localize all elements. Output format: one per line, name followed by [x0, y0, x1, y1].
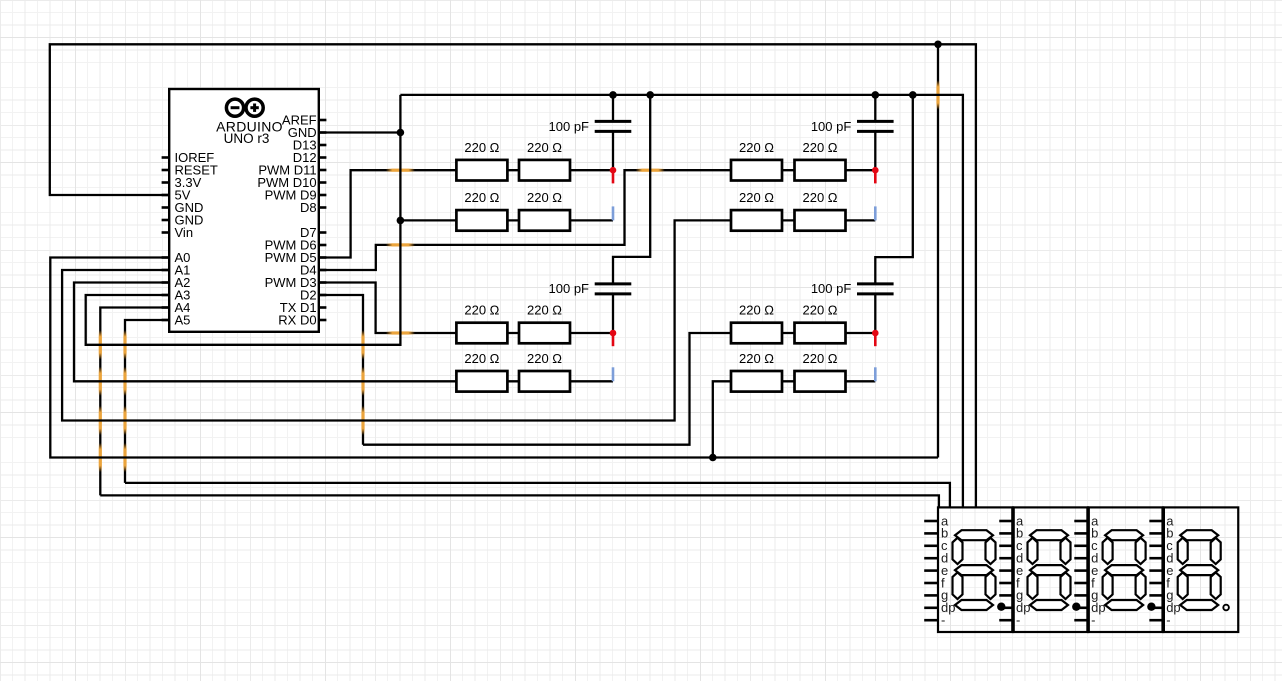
svg-text:100 pF: 100 pF — [811, 281, 852, 296]
wire GND bus to display — [400, 95, 963, 508]
digit segment c (DS4) — [1211, 572, 1221, 599]
capacitor C4 bottom plate — [857, 292, 894, 295]
pin stub e (DS1) — [924, 569, 938, 572]
digit segment g (DS2) — [1030, 565, 1068, 575]
svg-text:100 pF: 100 pF — [811, 119, 852, 134]
pin stub 5V (left) — [162, 194, 170, 197]
svg-text:220 Ω: 220 Ω — [802, 351, 837, 366]
pin stub e (DS2) — [999, 569, 1013, 572]
pin stub D10 — [319, 181, 327, 184]
pin stub D12 — [319, 156, 327, 159]
pin stub dp (DS1) — [924, 606, 938, 609]
wire crossing hop (A4 leg at y=457.5) — [99, 443, 102, 472]
wire D4 to digit-group2 row1 (net D4) — [319, 170, 876, 270]
decimal point (DS1) — [997, 603, 1005, 611]
wire crossing hop (A5 leg at y=457.5) — [123, 443, 126, 472]
wire D3 to digit-group3 row1 (net D3) — [319, 283, 613, 334]
pin stub a (DS2) — [999, 520, 1013, 523]
wire A5 down-leg (net A5) — [125, 320, 169, 483]
red junction dot group3 — [610, 330, 617, 337]
svg-text:100 pF: 100 pF — [549, 119, 590, 134]
junction top bus / A0 riser — [934, 41, 942, 49]
svg-text:RX D0: RX D0 — [278, 313, 316, 328]
wire A4 bottom run to display — [100, 495, 939, 507]
display divider 1 — [1011, 507, 1015, 632]
pin stub f (DS1) — [924, 582, 938, 585]
pin stub d (DS3) — [1074, 557, 1088, 560]
7-segment display DS4 body — [1163, 507, 1238, 632]
wire A1 to digit-group2 row2 (net A1) — [62, 220, 875, 420]
pin stub d (DS4) — [1149, 557, 1163, 560]
junction GND bus / C2 feed — [646, 91, 654, 99]
pin stub - (DS4) — [1149, 619, 1163, 622]
svg-text:-: - — [1166, 613, 1170, 628]
svg-text:220 Ω: 220 Ω — [527, 190, 562, 205]
digit segment e (DS2) — [1028, 572, 1038, 599]
digit segment f (DS4) — [1178, 538, 1188, 564]
pin stub c (DS1) — [924, 544, 938, 547]
resistor R10 220 ohm — [519, 323, 570, 344]
pin stub dp (DS3) — [1074, 606, 1088, 609]
pin stub D1 — [319, 306, 327, 309]
red pin stub group1 — [612, 170, 615, 183]
resistor R14 220 ohm — [795, 323, 846, 344]
digit segment b (DS4) — [1211, 538, 1221, 564]
pin stub c (DS2) — [999, 544, 1013, 547]
capacitor C3 top lead — [874, 95, 876, 122]
svg-text:100 pF: 100 pF — [549, 281, 590, 296]
resistor R1 220 ohm — [456, 160, 507, 181]
svg-text:-: - — [1091, 613, 1095, 628]
junction GND bus / C1 — [609, 91, 617, 99]
pin stub D7 — [319, 231, 327, 234]
blue pin stub group2 — [874, 206, 877, 220]
wire capacitor C2 feed from GND bus — [613, 95, 650, 284]
digit segment b (DS1) — [986, 538, 996, 564]
wire A2 to digit-group3 row2 (net A2) — [74, 283, 613, 382]
pin stub D2 — [319, 294, 327, 297]
svg-text:220 Ω: 220 Ω — [739, 140, 774, 155]
svg-text:220 Ω: 220 Ω — [802, 140, 837, 155]
capacitor C2 bottom plate — [595, 292, 632, 295]
pin stub e (DS3) — [1074, 569, 1088, 572]
decimal point (DS3) — [1147, 603, 1155, 611]
svg-text:220 Ω: 220 Ω — [802, 190, 837, 205]
pin stub D0 — [319, 319, 327, 322]
red junction dot group2 — [872, 167, 879, 174]
digit segment e (DS3) — [1103, 572, 1113, 599]
wire GND pin to riser — [319, 131, 401, 133]
wire crossing hop (A4 leg at y=344.8) — [99, 330, 102, 359]
Arduino UNO U1 body — [169, 89, 319, 332]
pin stub b (DS3) — [1074, 532, 1088, 535]
pin stub D11 — [319, 169, 327, 172]
wire crossing hop (A4 leg at y=381.3) — [99, 367, 102, 396]
svg-text:-: - — [941, 613, 945, 628]
resistor R16 220 ohm — [795, 371, 846, 392]
svg-text:220 Ω: 220 Ω — [802, 303, 837, 318]
svg-text:220 Ω: 220 Ω — [464, 351, 499, 366]
wire crossing hop (D4 net over cap feed) — [636, 169, 665, 172]
wire 5V to top bus to display — [50, 44, 976, 507]
digit segment b (DS3) — [1136, 538, 1146, 564]
pin stub GND (left) — [162, 219, 170, 222]
resistor R9 220 ohm — [456, 323, 507, 344]
resistor R3 220 ohm — [456, 210, 507, 231]
svg-text:-: - — [1016, 613, 1020, 628]
pin stub a (DS4) — [1149, 520, 1163, 523]
pin stub GND — [319, 131, 327, 134]
pin stub A5 (left) — [162, 319, 170, 322]
pin stub f (DS3) — [1074, 582, 1088, 585]
digit segment g (DS3) — [1105, 565, 1143, 575]
pin stub b (DS4) — [1149, 532, 1163, 535]
pin stub g (DS4) — [1149, 594, 1163, 597]
wire crossing hop (D5 net over GND riser) — [386, 169, 415, 172]
wire crossing hop (D2 leg at y=420.5) — [361, 406, 364, 435]
wire A5 bottom run to display — [125, 483, 950, 508]
pin stub A2 (left) — [162, 281, 170, 284]
pin stub A0 (left) — [162, 256, 170, 259]
wire crossing hop (D2 leg at y=381.3) — [361, 367, 364, 396]
wire crossing hop (D2 leg at y=344.8) — [361, 330, 364, 359]
wire capacitor C4 feed from GND bus — [875, 95, 913, 284]
pin stub IOREF (left) — [162, 156, 170, 159]
pin stub c (DS4) — [1149, 544, 1163, 547]
digit segment a (DS4) — [1180, 530, 1218, 540]
digit segment a (DS3) — [1105, 530, 1143, 540]
pin stub g (DS3) — [1074, 594, 1088, 597]
pin stub D5 — [319, 256, 327, 259]
junction GND bus / C3 — [872, 91, 880, 99]
pin stub f (DS2) — [999, 582, 1013, 585]
decimal point (DS4) — [1223, 605, 1229, 611]
digit segment b (DS2) — [1061, 538, 1071, 564]
digit segment e (DS4) — [1178, 572, 1188, 599]
resistor R11 220 ohm — [456, 371, 507, 392]
blue pin stub group1 — [612, 206, 615, 220]
svg-text:220 Ω: 220 Ω — [739, 190, 774, 205]
decimal point (DS2) — [1072, 603, 1080, 611]
blue pin stub group4 — [874, 367, 877, 381]
wire crossing hop (A4 leg at y=420.5) — [99, 406, 102, 435]
pin stub D3 — [319, 281, 327, 284]
svg-text:UNO r3: UNO r3 — [224, 131, 270, 146]
pin stub a (DS3) — [1074, 520, 1088, 523]
red pin stub group2 — [874, 170, 877, 183]
capacitor C1 top plate — [595, 120, 632, 123]
digit segment d (DS1) — [955, 600, 993, 610]
wire crossing hop (A5 leg at y=420.5) — [123, 406, 126, 435]
resistor R13 220 ohm — [731, 323, 782, 344]
wire A4 down-leg (net A4) — [100, 308, 169, 496]
pin stub D8 — [319, 206, 327, 209]
7-segment display DS3 body — [1088, 507, 1163, 632]
svg-text:220 Ω: 220 Ω — [527, 303, 562, 318]
capacitor C2 bottom lead — [612, 294, 614, 333]
svg-text:220 Ω: 220 Ω — [464, 303, 499, 318]
capacitor C2 top plate — [595, 282, 632, 285]
digit segment a (DS1) — [955, 530, 993, 540]
junction riser / group1 row2 — [397, 217, 405, 225]
resistor R12 220 ohm — [519, 371, 570, 392]
digit segment g (DS1) — [955, 565, 993, 575]
pin stub A4 (left) — [162, 306, 170, 309]
resistor R4 220 ohm — [519, 210, 570, 231]
pin stub A3 (left) — [162, 294, 170, 297]
pin stub d (DS2) — [999, 557, 1013, 560]
pin stub D6 — [319, 244, 327, 247]
digit segment c (DS1) — [986, 572, 996, 599]
digit segment g (DS4) — [1180, 565, 1218, 575]
digit segment d (DS3) — [1105, 600, 1143, 610]
pin stub D9 — [319, 194, 327, 197]
display divider 3 — [1161, 507, 1165, 632]
digit segment c (DS2) — [1061, 572, 1071, 599]
pin stub - (DS1) — [924, 619, 938, 622]
resistor R5 220 ohm — [731, 160, 782, 181]
junction GND pin / riser — [397, 129, 405, 137]
pin stub D13 — [319, 144, 327, 147]
pin stub RESET (left) — [162, 169, 170, 172]
capacitor C1 bottom plate — [595, 130, 632, 133]
wire A3/GND riser (net GND) — [86, 95, 401, 345]
red junction dot group4 — [872, 330, 879, 337]
digit segment c (DS3) — [1136, 572, 1146, 599]
capacitor C1 top lead — [612, 95, 614, 122]
svg-text:A5: A5 — [175, 313, 191, 328]
wire D2 down-leg (net D2) — [319, 295, 363, 445]
pin stub AREF — [319, 119, 327, 122]
digit segment d (DS2) — [1030, 600, 1068, 610]
wire D5 to digit-group1 row1 (net D5) — [319, 170, 613, 257]
svg-text:Vin: Vin — [175, 225, 194, 240]
junction A0 run / group4 row2 — [709, 454, 717, 462]
pin stub D4 — [319, 269, 327, 272]
pin stub A1 (left) — [162, 269, 170, 272]
wire digit-group1 row2 — [400, 219, 613, 221]
pin stub - (DS3) — [1074, 619, 1088, 622]
capacitor C3 bottom lead — [874, 131, 876, 170]
svg-text:220 Ω: 220 Ω — [739, 351, 774, 366]
pin stub g (DS1) — [924, 594, 938, 597]
capacitor C4 top plate — [857, 282, 894, 285]
pin stub c (DS3) — [1074, 544, 1088, 547]
pin stub b (DS1) — [924, 532, 938, 535]
wire A0 bottom run (net A0) — [50, 258, 938, 458]
wire crossing hop (A5 leg at y=344.8) — [123, 330, 126, 359]
blue pin stub group3 — [612, 367, 615, 381]
capacitor C1 bottom lead — [612, 131, 614, 170]
pin stub f (DS4) — [1149, 582, 1163, 585]
svg-text:D8: D8 — [300, 200, 317, 215]
pin stub g (DS2) — [999, 594, 1013, 597]
wire crossing hop (D4 net over GND riser) — [386, 243, 415, 246]
wire crossing hop (D3 net over GND riser) — [386, 331, 415, 334]
capacitor C3 top plate — [857, 120, 894, 123]
svg-text:220 Ω: 220 Ω — [464, 190, 499, 205]
pin stub b (DS2) — [999, 532, 1013, 535]
red pin stub group3 — [612, 333, 615, 346]
pin stub dp (DS2) — [999, 606, 1013, 609]
capacitor C4 bottom lead — [874, 294, 876, 333]
pin stub d (DS1) — [924, 557, 938, 560]
Arduino logo plus circle — [246, 99, 263, 116]
display divider 2 — [1086, 507, 1090, 632]
digit segment f (DS1) — [953, 538, 963, 564]
digit segment f (DS2) — [1028, 538, 1038, 564]
digit segment a (DS2) — [1030, 530, 1068, 540]
digit segment e (DS1) — [953, 572, 963, 599]
resistor R7 220 ohm — [731, 210, 782, 231]
resistor R8 220 ohm — [795, 210, 846, 231]
resistor R15 220 ohm — [731, 371, 782, 392]
pin stub - (DS2) — [999, 619, 1013, 622]
svg-text:220 Ω: 220 Ω — [739, 303, 774, 318]
digit segment d (DS4) — [1180, 600, 1218, 610]
junction GND bus / C4 feed — [909, 91, 917, 99]
wire vertical A0-net right riser — [937, 44, 939, 457]
svg-text:220 Ω: 220 Ω — [464, 140, 499, 155]
7-segment display DS2 body — [1013, 507, 1088, 632]
red junction dot group1 — [610, 167, 617, 174]
wire crossing hop (A0 riser over GND bus) — [936, 80, 939, 109]
resistor R2 220 ohm — [519, 160, 570, 181]
capacitor C3 bottom plate — [857, 130, 894, 133]
digit segment f (DS3) — [1103, 538, 1113, 564]
wire crossing hop (A5 leg at y=381.3) — [123, 367, 126, 396]
pin stub 3.3V (left) — [162, 181, 170, 184]
pin stub Vin (left) — [162, 231, 170, 234]
pin stub e (DS4) — [1149, 569, 1163, 572]
wire A0 branch to digit-group4 row2 — [713, 381, 876, 457]
svg-text:220 Ω: 220 Ω — [527, 140, 562, 155]
red pin stub group4 — [874, 333, 877, 346]
Arduino logo minus circle — [226, 99, 243, 116]
resistor R6 220 ohm — [795, 160, 846, 181]
wire D2 net to digit-group4 row1 — [363, 333, 875, 445]
7-segment display DS1 body — [938, 507, 1013, 632]
pin stub GND (left) — [162, 206, 170, 209]
pin stub a (DS1) — [924, 520, 938, 523]
svg-text:220 Ω: 220 Ω — [527, 351, 562, 366]
pin stub dp (DS4) — [1149, 606, 1163, 609]
